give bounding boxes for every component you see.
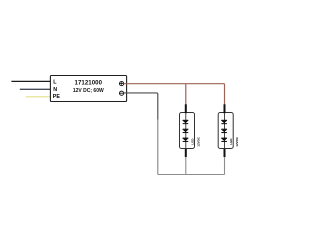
wire - vertical lower part (gray) <box>157 119 159 175</box>
wire PE (earth, pale yellow) <box>26 96 51 98</box>
diode D1 module 1 <box>183 120 189 124</box>
diode D2 module 1 <box>183 129 189 133</box>
svg-text:12VDC: 12VDC <box>235 136 239 147</box>
power supply U1 (LED driver box) <box>50 76 126 102</box>
diode D3 module 2 <box>221 138 227 142</box>
LED module 1 (12VDC LED strip) <box>180 104 201 157</box>
wire - bottom return bus (gray) <box>158 174 225 176</box>
svg-text:N: N <box>53 87 57 93</box>
wire + drop to LED module 2 (red) <box>224 84 226 105</box>
svg-text:PE: PE <box>53 94 61 100</box>
wire + drop to LED module 1 (red) <box>185 84 187 105</box>
diode D2 module 2 <box>221 129 227 133</box>
pin bottom lead module 2 <box>224 149 226 157</box>
wire +12V bus (red) <box>124 83 225 85</box>
body outline module 1 <box>180 113 195 149</box>
svg-text:12V DC; 60W: 12V DC; 60W <box>73 88 104 94</box>
svg-text:17121000: 17121000 <box>75 80 103 87</box>
wire LED module 2 bottom lead (gray) <box>224 157 226 175</box>
svg-text:LED: LED <box>190 138 194 145</box>
terminal - (negative output) <box>120 91 124 95</box>
internal wire module 2 <box>224 113 226 148</box>
pin top lead module 2 <box>224 104 226 113</box>
diode D3 module 1 <box>183 138 189 142</box>
wire L (mains phase, black) <box>11 80 51 82</box>
wire N (neutral, dark slate) <box>20 88 51 90</box>
LED module 2 (12VDC LED strip) <box>218 104 239 157</box>
internal wire module 1 <box>185 113 187 148</box>
svg-text:LED: LED <box>229 138 233 145</box>
wire - from terminal (gray, right then down) <box>124 93 158 120</box>
pin top lead module 1 <box>185 104 187 113</box>
diode D1 module 2 <box>221 120 227 124</box>
wire LED module 1 bottom lead (gray) <box>185 157 187 175</box>
terminal + (positive output) <box>120 82 124 86</box>
body outline module 2 <box>218 113 233 149</box>
pin bottom lead module 1 <box>185 149 187 157</box>
svg-text:12VDC: 12VDC <box>197 136 201 147</box>
